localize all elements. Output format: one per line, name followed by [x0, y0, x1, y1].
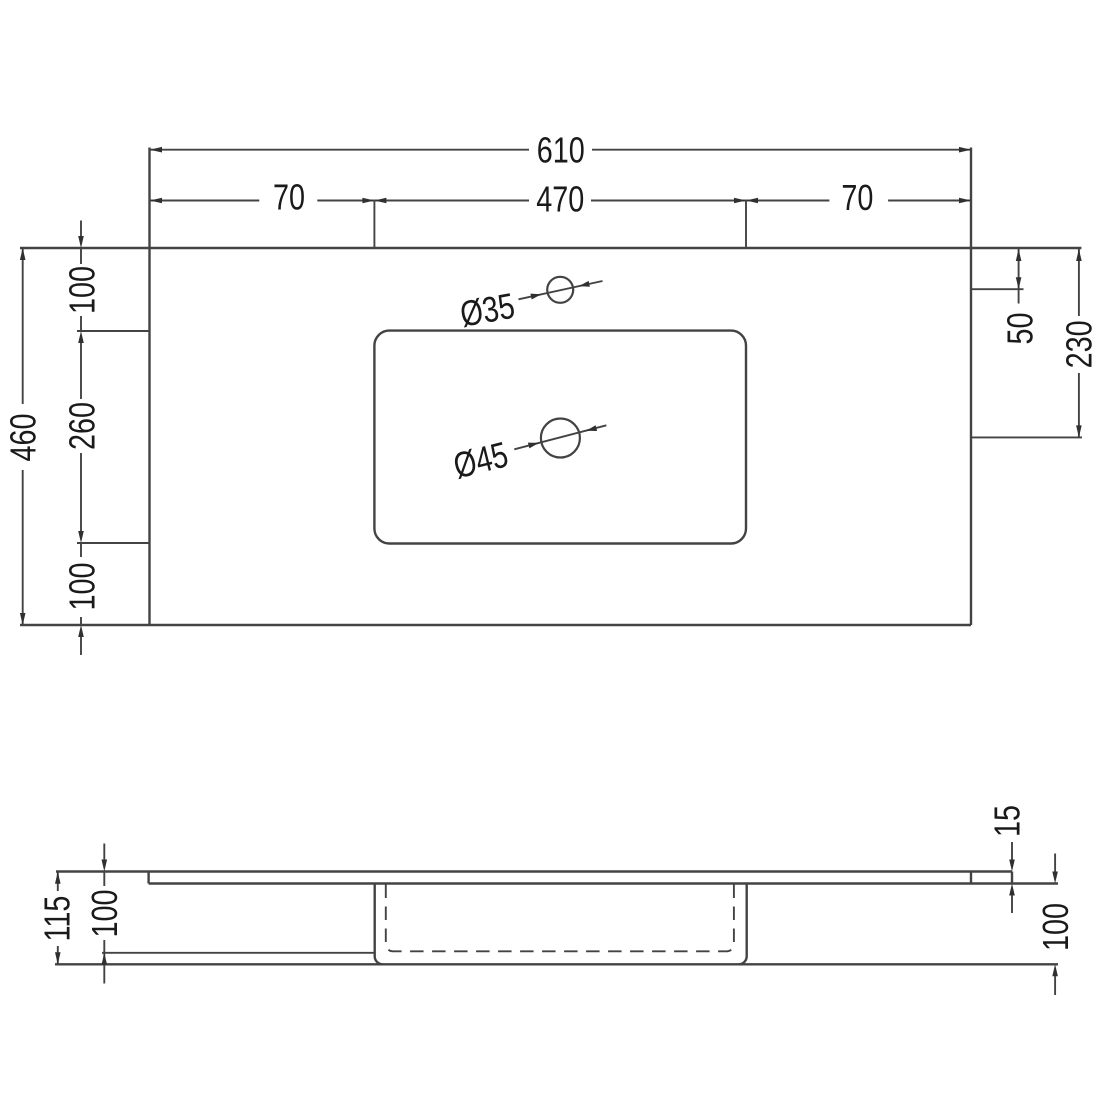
countertop left edge + extension up	[148, 148, 150, 626]
dim line 460 seg a	[22, 248, 24, 404]
leader arrow left Ø35	[530, 294, 541, 300]
tail above chain dim	[80, 221, 82, 237]
dim line 70 left seg a	[150, 200, 259, 202]
svg-text:100: 100	[62, 266, 103, 314]
dim line 470 seg a	[374, 200, 529, 202]
arrow 100-left bottom (pointing up)	[102, 953, 108, 965]
drain hole circle Ø45	[541, 419, 580, 458]
dim line 100-left seg b	[103, 940, 105, 984]
svg-text:70: 70	[841, 177, 873, 218]
slab left end cap	[147, 872, 149, 884]
svg-text:70: 70	[273, 177, 305, 218]
countertop right edge + extension up	[970, 148, 972, 626]
leader arrow left Ø45	[528, 443, 539, 449]
dim line 470 seg b	[591, 200, 746, 202]
slab top surface line + left extension	[56, 870, 1012, 872]
chain line seg	[80, 617, 82, 625]
tail below 15 dim	[1011, 895, 1013, 913]
svg-text:15: 15	[987, 805, 1028, 837]
bowl outer left wall (section)	[375, 884, 383, 965]
tail above 100-right dim	[1054, 854, 1056, 873]
dim line 230 seg b	[1078, 373, 1080, 437]
svg-text:230: 230	[1058, 320, 1099, 368]
arrow 15 top (pointing down)	[1009, 860, 1015, 872]
extension tick at x=374	[373, 201, 375, 249]
svg-text:100: 100	[1035, 903, 1076, 951]
slab bottom line + right extension	[149, 882, 1058, 884]
bowl outer right wall (section)	[739, 884, 747, 965]
svg-text:260: 260	[62, 402, 103, 450]
faucet hole circle Ø35	[547, 277, 573, 303]
slab right end cap	[1011, 872, 1013, 884]
arrow 460 bottom	[20, 613, 26, 625]
dimension line 610 (left segment)	[150, 149, 529, 151]
bowl inner dashed outline (section)	[386, 885, 734, 952]
chain line seg	[80, 343, 82, 399]
chain line seg	[80, 248, 82, 264]
tail below 100-right dim	[1054, 976, 1056, 995]
arrow 460 top	[20, 248, 26, 260]
tail above 100-left dim	[103, 844, 105, 861]
arrow 470 left	[374, 198, 386, 204]
dim line 70 left seg b	[317, 200, 374, 202]
extension line inner bowl bottom level	[102, 952, 375, 954]
dim line 100-left seg a	[103, 872, 105, 887]
chain line seg	[80, 543, 82, 557]
svg-text:460: 460	[3, 413, 44, 461]
extension line y=437 (hole 45 level)	[971, 436, 1082, 438]
tail below chain dim	[80, 637, 82, 655]
arrow 50 bottom	[1016, 277, 1022, 289]
extension line y=331 (basin top level)	[77, 330, 150, 332]
dimension line 610 (right segment)	[592, 149, 971, 151]
leader arrow right Ø35	[579, 281, 590, 287]
arrow chain at top edge (pointing down)	[78, 236, 84, 248]
leader line through Ø45 hole	[514, 425, 606, 449]
arrow 610 right	[959, 147, 971, 153]
leader line through Ø35 hole	[519, 281, 603, 299]
dim line 230 seg a	[1078, 249, 1080, 316]
chain line seg	[80, 316, 82, 331]
dim line 115 seg a	[57, 872, 59, 891]
svg-text:115: 115	[37, 896, 78, 942]
svg-text:100: 100	[62, 562, 103, 610]
slab tick at x=971	[970, 872, 972, 884]
tail above 15 dim	[1011, 842, 1013, 860]
basin rounded rectangle (plan)	[374, 331, 746, 544]
arrow 115 bottom	[55, 952, 61, 964]
arrow 260 bottom (pointing down)	[78, 531, 84, 543]
countertop top edge + extension line	[20, 247, 1081, 249]
arrow 50 top	[1016, 249, 1022, 261]
svg-text:100: 100	[84, 889, 125, 937]
extension line y=289 (hole 35 level)	[971, 288, 1024, 290]
dim line 115 seg b	[57, 946, 59, 964]
dim line 70 right seg a	[746, 200, 829, 202]
arrow 70L right	[362, 198, 374, 204]
arrow 470 right	[734, 198, 746, 204]
arrow 610 left	[150, 147, 162, 153]
svg-text:610: 610	[537, 129, 585, 170]
svg-text:50: 50	[1000, 312, 1041, 344]
countertop bottom edge + extension line	[20, 624, 971, 626]
arrow 230 bottom	[1076, 425, 1082, 437]
arrow 115 top	[55, 872, 61, 884]
chain line seg	[80, 453, 82, 531]
arrow 70R right	[959, 198, 971, 204]
arrow chain at bottom edge (pointing up)	[78, 625, 84, 637]
leader arrow right Ø45	[586, 425, 597, 431]
bowl bottom line + extensions both sides	[55, 963, 1058, 965]
arrow 70L left	[150, 198, 162, 204]
extension line y=543 (basin bottom level)	[77, 542, 150, 544]
arrow 70R left	[746, 198, 758, 204]
svg-text:470: 470	[536, 179, 584, 220]
arrow 15 bottom (pointing up)	[1009, 884, 1015, 896]
arrow 260 top (pointing up)	[78, 331, 84, 343]
arrow 230 top	[1076, 249, 1082, 261]
arrow 100-right top (pointing down)	[1052, 872, 1058, 884]
arrow 100-right bottom (pointing up)	[1052, 964, 1058, 976]
dim line 70 right seg b	[888, 200, 971, 202]
arrow 100-left top (pointing down)	[102, 860, 108, 872]
dim line 460 seg b	[22, 470, 24, 625]
dim line 50	[1018, 249, 1020, 304]
extension tick at x=746	[745, 201, 747, 249]
